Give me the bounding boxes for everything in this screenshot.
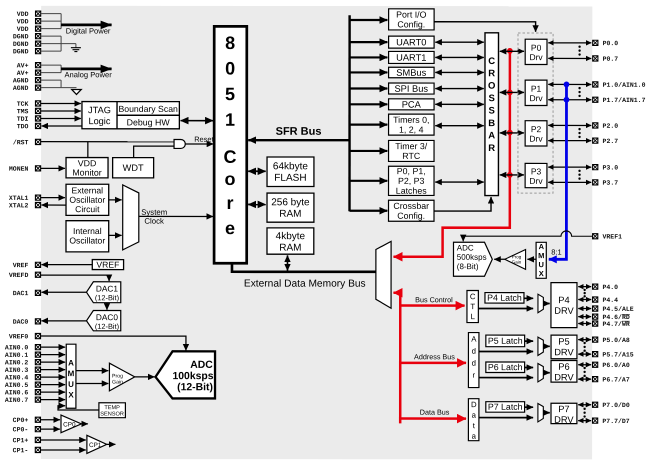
svg-text:P4.5/ALE: P4.5/ALE (602, 306, 633, 313)
block VDD Monitor (66, 158, 108, 178)
P4 output mux (538, 294, 543, 313)
pin DGND3 (13, 48, 41, 55)
wire VDD pins to digital power join (41, 14, 61, 29)
wire SFR spine to Timers 0, 1, 2, 4 (350, 124, 388, 126)
wire WDT to reset gate (134, 146, 175, 158)
red Bus Control wire (400, 295, 464, 305)
block P7 DRV (551, 403, 577, 425)
svg-text:AV+: AV+ (17, 70, 29, 77)
block SMBus (389, 67, 435, 78)
svg-text:VDD: VDD (17, 26, 29, 33)
svg-text:8:1: 8:1 (551, 248, 561, 257)
wire external oscillator to XTAL2 (42, 204, 67, 206)
svg-text:Digital Power: Digital Power (66, 26, 111, 35)
pin P4.4 (593, 297, 619, 304)
svg-text:P0: P0 (531, 43, 542, 53)
block UART0 (389, 36, 435, 48)
block P4 DRV (551, 283, 577, 328)
svg-text:TCK: TCK (17, 101, 29, 108)
comparator CP0 (61, 415, 81, 433)
wire SPI Bus to crossbar (bidirectional) (435, 88, 484, 90)
wire port driver to pin P7.0/D0 (bidirectional) (578, 404, 591, 406)
block P1 Drv (525, 80, 547, 105)
pin DAC1 (13, 290, 41, 297)
block P7 Latch (486, 402, 525, 413)
svg-text:C: C (488, 56, 495, 67)
wire SFR spine to PCA (350, 103, 388, 105)
wire SFR spine to UART0 (350, 41, 388, 43)
svg-text:P3.0: P3.0 (603, 164, 619, 171)
blue AIN1 bus wire (549, 84, 567, 259)
pin P3.7 (593, 180, 619, 187)
svg-text:d: d (472, 359, 476, 368)
wire 8051 to 256 byte RAM (bidirectional) (248, 203, 265, 205)
svg-text:R: R (488, 143, 495, 154)
wire AMUX to prog gain (lower) (76, 382, 108, 384)
Digital Power bus arrow (61, 25, 112, 36)
svg-text:D: D (471, 400, 477, 409)
svg-text:VDD: VDD (17, 18, 29, 25)
svg-text:4kbyte: 4kbyte (276, 231, 306, 242)
block P6 Latch (486, 362, 525, 373)
svg-text:P4.7/WR: P4.7/WR (602, 321, 629, 328)
svg-text:500ksps: 500ksps (457, 253, 487, 262)
wire Data to P7 mux (479, 417, 533, 419)
svg-text:VREF: VREF (96, 260, 119, 270)
block WDT (113, 158, 154, 178)
red Address Bus wire (400, 352, 466, 363)
svg-text:1: 1 (225, 110, 235, 130)
svg-text:Debug HW: Debug HW (127, 117, 171, 127)
block Boundary Scan (117, 102, 179, 116)
wire P5 Latch to P5 mux (525, 340, 534, 342)
wire SMBus to crossbar (bidirectional) (435, 71, 484, 73)
svg-text:U: U (68, 380, 74, 389)
wire CP0- input (41, 428, 60, 430)
8:1 AMUX block (536, 242, 546, 278)
pin VDD2 (17, 18, 41, 25)
wire PCA to crossbar (bidirectional) (435, 103, 484, 105)
block PCA (389, 99, 435, 110)
wire AIN0.5 to AMUX (41, 384, 65, 386)
wire AIN0.6 to AMUX (41, 391, 65, 393)
block Port I/O Config. (389, 9, 435, 30)
svg-text:P2.7: P2.7 (603, 138, 619, 145)
wire P6 Latch to P6 mux (525, 367, 534, 369)
svg-text:P4 Latch: P4 Latch (487, 293, 522, 303)
wire SFR spine to Timer 3/ RTC (350, 150, 388, 152)
block Data (468, 399, 479, 441)
wire AIN0.0 to AMUX (41, 346, 65, 348)
svg-text:P6.7/A7: P6.7/A7 (602, 376, 629, 383)
digital ground symbol (71, 48, 81, 52)
svg-text:e: e (225, 218, 235, 238)
port drivers dashed enclosure (518, 33, 553, 193)
wire port driver to pin P3.7 (bidirectional) (548, 181, 591, 183)
svg-text:System: System (141, 208, 167, 217)
ellipsis dots P4 group (583, 289, 585, 298)
SFR bus spine wire (348, 15, 351, 211)
wire Crossbar Config to crossbar (434, 197, 491, 211)
svg-text:AGND: AGND (13, 77, 29, 84)
wire UART1 to crossbar (bidirectional) (435, 56, 483, 58)
block Timer 3/ RTC (389, 140, 435, 161)
svg-text:P5: P5 (558, 337, 569, 347)
wire P7 mux to P7 DRV (543, 412, 549, 414)
svg-text:FLASH: FLASH (274, 173, 306, 184)
wire DAC1 output to pin (41, 291, 86, 293)
pin P0.0 (593, 40, 619, 47)
svg-text:Gain: Gain (512, 260, 522, 265)
wire P4 Latch to P4 mux (524, 297, 533, 299)
wire port driver to pin P0.7 (bidirectional) (548, 57, 591, 59)
svg-text:Crossbar: Crossbar (393, 201, 429, 211)
wire Port I/O Config to port drivers (434, 22, 536, 32)
pin P4.7/WR (593, 321, 630, 328)
svg-text:A: A (488, 130, 495, 141)
svg-text:X: X (539, 269, 544, 278)
wire TEMP SENSOR to AMUX (58, 406, 99, 410)
svg-text:AIN0.1: AIN0.1 (5, 352, 29, 359)
wire TCK to JTAG Logic (41, 102, 81, 104)
pin AV+1 (17, 62, 41, 69)
svg-text:DRV: DRV (554, 415, 574, 425)
label 8:1 (551, 248, 561, 257)
wire CP1 output (107, 443, 116, 445)
pin P4.0 (593, 284, 619, 291)
wire Addr to P5 mux (479, 350, 533, 352)
svg-text:Data Bus: Data Bus (420, 408, 450, 417)
svg-text:P0.7: P0.7 (603, 56, 619, 63)
red junction P3 (507, 172, 513, 178)
prog gain amp (ADC0) (109, 363, 134, 391)
svg-text:CP1+: CP1+ (13, 437, 29, 444)
svg-text:d: d (472, 347, 476, 356)
pin TCK (17, 101, 41, 108)
svg-text:P1: P1 (531, 84, 542, 94)
svg-text:VREF: VREF (13, 262, 29, 269)
P5 output mux (538, 337, 543, 355)
block Timers 0, 1, 2, 4 (389, 114, 435, 135)
svg-text:o: o (225, 169, 236, 189)
svg-text:A: A (471, 335, 477, 344)
wire UART0 to crossbar (bidirectional) (435, 41, 484, 43)
svg-text:DAC0: DAC0 (96, 312, 119, 322)
pin TDI (17, 116, 41, 123)
svg-text:B: B (488, 118, 495, 129)
wire AMUX to prog gain (upper) (76, 370, 108, 372)
pin XTAL1 (9, 195, 41, 202)
wire AV+ pins join (41, 65, 61, 73)
svg-text:P1.0/AIN1.0: P1.0/AIN1.0 (603, 82, 646, 89)
pin TDO (17, 123, 41, 130)
svg-text:Config.: Config. (397, 19, 425, 29)
wire P4 mux to P4 DRV (543, 303, 549, 305)
svg-text:TDI: TDI (17, 116, 29, 123)
svg-text:Latches: Latches (396, 186, 427, 196)
ADC 500ksps 8-bit block (453, 242, 492, 276)
pin AGND2 (13, 85, 41, 92)
wire VREF1 to ADC 500ksps (hops over blue bus) (463, 231, 592, 241)
wire P4 DRV to pin P4.5/ALE (bidirectional) (578, 308, 591, 310)
wire Addr to P6 mux (479, 377, 533, 379)
pin P4.5/ALE (593, 306, 634, 313)
ellipsis dots P7 group (583, 408, 585, 418)
wire DGND pins join (41, 36, 76, 51)
svg-text:5: 5 (225, 84, 235, 104)
svg-text:CP0: CP0 (63, 421, 76, 428)
pin P4.6/RD (593, 314, 630, 321)
wire port driver to pin P5.0/A8 (bidirectional) (578, 339, 591, 341)
block P6 DRV (551, 361, 577, 383)
block 64kbyte FLASH (267, 157, 314, 187)
block 256 byte RAM (267, 193, 314, 222)
svg-text:U: U (539, 260, 544, 269)
wire P5 mux to P5 DRV (543, 345, 549, 347)
block Internal Oscillator (66, 221, 109, 252)
block P5 Latch (486, 335, 525, 347)
svg-text:CP1-: CP1- (13, 447, 29, 454)
ellipsis dots P5 group (583, 342, 585, 352)
analog ground symbol (72, 89, 82, 94)
wire AGND pins join (41, 80, 77, 88)
svg-text:Bus Control: Bus Control (415, 295, 453, 304)
wire SFR spine to Crossbar Config. (350, 210, 388, 212)
svg-text:X: X (68, 391, 74, 400)
prog gain amp (ADC1) (505, 249, 526, 269)
wire crossbar to P1 Drv (bidirectional) (500, 91, 524, 93)
svg-text:256 byte: 256 byte (271, 197, 310, 208)
wire AIN0.3 to AMUX (41, 369, 65, 371)
svg-text:Drv: Drv (529, 52, 543, 62)
block JTAG Logic (82, 102, 117, 129)
pin XTAL2 (9, 202, 41, 209)
svg-text:L: L (471, 312, 476, 321)
wire port driver to pin P5.7/A15 (bidirectional) (578, 353, 591, 355)
svg-text:VDD: VDD (17, 11, 29, 18)
pin P1.0/AIN1.0 (593, 82, 646, 89)
block SPI Bus (389, 83, 435, 94)
wire Reset to 8051 core (185, 135, 213, 144)
wire 8051 to FLASH (bidirectional) (248, 170, 265, 172)
block P0, P1, P2, P3 Latches (389, 166, 435, 196)
wire VREF box to VREF pin (41, 264, 92, 266)
wire P4 DRV to pin P4.0 (bidirectional) (578, 286, 591, 288)
external memory interface mux (376, 241, 391, 308)
svg-text:Drv: Drv (529, 176, 543, 186)
svg-text:Circuit: Circuit (75, 204, 100, 214)
svg-text:0: 0 (225, 59, 235, 79)
svg-text:(12-Bit): (12-Bit) (95, 293, 119, 302)
pin CP0- (13, 426, 41, 433)
red port bus wire (crossbar to memory mux) (393, 51, 509, 257)
pin /RST (13, 139, 41, 146)
reset gate U1 (174, 140, 185, 149)
wire SFR spine to SMBus (350, 71, 388, 73)
wire AIN0.4 to AMUX (41, 376, 65, 378)
SFR Bus wire (248, 126, 349, 140)
block CTL (467, 290, 478, 322)
pin AIN0.1 (5, 352, 41, 359)
pin AIN0.2 (5, 359, 41, 366)
svg-text:AIN0.4: AIN0.4 (5, 374, 29, 381)
svg-text:P3: P3 (531, 166, 542, 176)
svg-text:DRV: DRV (554, 306, 574, 316)
svg-text:Gain: Gain (112, 379, 123, 385)
wire SFR spine to UART1 (350, 56, 388, 58)
pin VREF0 (9, 333, 41, 340)
svg-text:P1.7/AIN1.7: P1.7/AIN1.7 (603, 97, 646, 104)
svg-text:AIN0.6: AIN0.6 (5, 389, 29, 396)
pin MONEN (9, 166, 41, 173)
wire port driver to pin P7.7/D7 (bidirectional) (578, 420, 591, 422)
svg-text:VREF0: VREF0 (9, 333, 29, 340)
svg-text:Monitor: Monitor (72, 168, 101, 178)
svg-text:/RST: /RST (13, 139, 29, 146)
svg-text:Analog Power: Analog Power (64, 70, 112, 79)
svg-text:VREFD: VREFD (9, 272, 29, 279)
ellipsis dots P6 group (583, 367, 585, 377)
svg-text:Logic: Logic (88, 116, 110, 126)
analog AMUX block (66, 344, 76, 408)
svg-text:P4: P4 (558, 295, 569, 305)
svg-text:SPI Bus: SPI Bus (394, 84, 428, 94)
svg-text:P4.0: P4.0 (602, 284, 618, 291)
svg-text:Oscillator: Oscillator (69, 235, 105, 245)
wire CP1+ input (41, 439, 86, 441)
wire System Clock to 8051 core (139, 208, 213, 226)
ellipsis dots P3.0 group (578, 170, 580, 180)
svg-text:CP0+: CP0+ (13, 417, 29, 424)
svg-text:SMBus: SMBus (396, 68, 426, 78)
pin P6.7/A7 (593, 376, 630, 383)
svg-text:Boundary Scan: Boundary Scan (118, 104, 178, 114)
blue junction P1.7 (564, 97, 570, 103)
svg-text:M: M (68, 369, 75, 378)
wire Latches to crossbar (bidirectional) (435, 181, 484, 183)
svg-text:TDO: TDO (17, 123, 29, 130)
svg-text:ADC: ADC (457, 243, 474, 252)
pin AIN0.5 (5, 382, 41, 389)
wire TMS to JTAG Logic (41, 110, 81, 112)
svg-text:Timers 0,: Timers 0, (393, 115, 429, 125)
svg-text:UART0: UART0 (396, 37, 426, 47)
svg-text:P2, P3: P2, P3 (398, 176, 425, 186)
wire SFR spine to P0, P1, P2, P3 Latches (350, 180, 388, 182)
svg-text:RTC: RTC (402, 151, 421, 161)
svg-text:CP1: CP1 (89, 442, 102, 449)
svg-text:S: S (488, 105, 494, 116)
svg-text:Timer 3/: Timer 3/ (395, 141, 427, 151)
svg-text:Drv: Drv (529, 93, 543, 103)
wire crossbar to P3 Drv (bidirectional) (500, 174, 524, 176)
wire TDI to JTAG Logic (41, 117, 81, 119)
wire AMUX to prog gain (ADC1) (527, 258, 536, 260)
svg-text:P6 Latch: P6 Latch (488, 362, 523, 372)
svg-text:DGND: DGND (13, 48, 29, 55)
wire Timers to crossbar (bidirectional) (435, 125, 483, 127)
pin P2.7 (593, 138, 619, 145)
svg-text:UART1: UART1 (396, 53, 426, 63)
pin VDD1 (17, 11, 41, 18)
pin CP0+ (13, 417, 41, 424)
wire crossbar to P0 Drv (bidirectional) (500, 50, 524, 52)
wire /RST to reset gate (41, 141, 174, 143)
block P4 Latch (485, 293, 524, 304)
svg-text:P7 Latch: P7 Latch (488, 402, 523, 412)
red Data Bus wire (400, 408, 466, 419)
wire port driver to pin P6.0/A0 (bidirectional) (578, 364, 591, 366)
svg-text:a: a (472, 411, 477, 420)
block Addr (468, 333, 479, 388)
svg-text:RAM: RAM (279, 209, 301, 220)
pin P0.7 (593, 56, 619, 63)
wire /RST branch to VDD monitor (87, 142, 89, 158)
svg-text:DGND: DGND (13, 33, 29, 40)
svg-text:S: S (488, 93, 494, 104)
svg-text:DAC0: DAC0 (13, 319, 29, 326)
svg-text:C: C (224, 147, 237, 167)
wire XTAL1 to external oscillator (41, 197, 65, 199)
svg-text:JTAG: JTAG (88, 105, 111, 115)
svg-text:Drv: Drv (529, 134, 543, 144)
pin AIN0.6 (5, 389, 41, 396)
svg-text:(8-Bit): (8-Bit) (457, 262, 479, 271)
CROSSBAR block (485, 33, 499, 196)
svg-text:AIN0.2: AIN0.2 (5, 359, 29, 366)
pin P5.7/A15 (593, 351, 634, 358)
wire SFR spine to SPI Bus (350, 87, 388, 89)
block UART1 (389, 51, 435, 63)
wire VREF0 to ADC 100ksps (41, 336, 186, 350)
svg-text:P5.7/A15: P5.7/A15 (602, 351, 633, 358)
pin AIN0.7 (5, 397, 41, 404)
wire port driver to pin P3.0 (bidirectional) (548, 166, 591, 168)
wire Debug HW to 8051 core (bidirectional) (181, 120, 214, 122)
svg-text:r: r (473, 371, 476, 380)
svg-text:XTAL1: XTAL1 (9, 195, 29, 202)
svg-text:CP0-: CP0- (13, 426, 29, 433)
svg-text:a: a (472, 432, 477, 441)
pin CP1+ (13, 437, 41, 444)
svg-text:Clock: Clock (144, 217, 164, 226)
svg-text:DRV: DRV (554, 372, 574, 382)
pin P6.0/A0 (593, 362, 630, 369)
block P0 Drv (525, 39, 547, 64)
svg-text:P6: P6 (558, 362, 569, 372)
svg-text:AIN0.7: AIN0.7 (5, 397, 29, 404)
wire MONEN to VDD Monitor (41, 167, 65, 169)
pin P5.0/A8 (593, 337, 630, 344)
pin VDD3 (17, 26, 41, 33)
pin CP1- (13, 447, 41, 454)
svg-text:PCA: PCA (402, 100, 422, 110)
pin TMS (17, 108, 41, 115)
svg-text:AV+: AV+ (17, 62, 29, 69)
svg-text:DGND: DGND (13, 41, 29, 48)
svg-text:64kbyte: 64kbyte (273, 161, 308, 172)
ADC 100ksps 12-bit block (156, 351, 216, 398)
pin VREF (13, 262, 41, 269)
svg-text:AIN0.5: AIN0.5 (5, 382, 29, 389)
wire CTL to P4 mux (478, 307, 533, 309)
svg-text:P5.0/A8: P5.0/A8 (602, 337, 629, 344)
pin DAC0 (13, 319, 41, 326)
svg-text:(12-Bit): (12-Bit) (177, 382, 213, 393)
wire port driver to pin P1.0/AIN1.0 (bidirectional) (548, 83, 591, 85)
svg-text:SENSOR: SENSOR (100, 411, 124, 417)
svg-text:WDT: WDT (123, 163, 144, 173)
